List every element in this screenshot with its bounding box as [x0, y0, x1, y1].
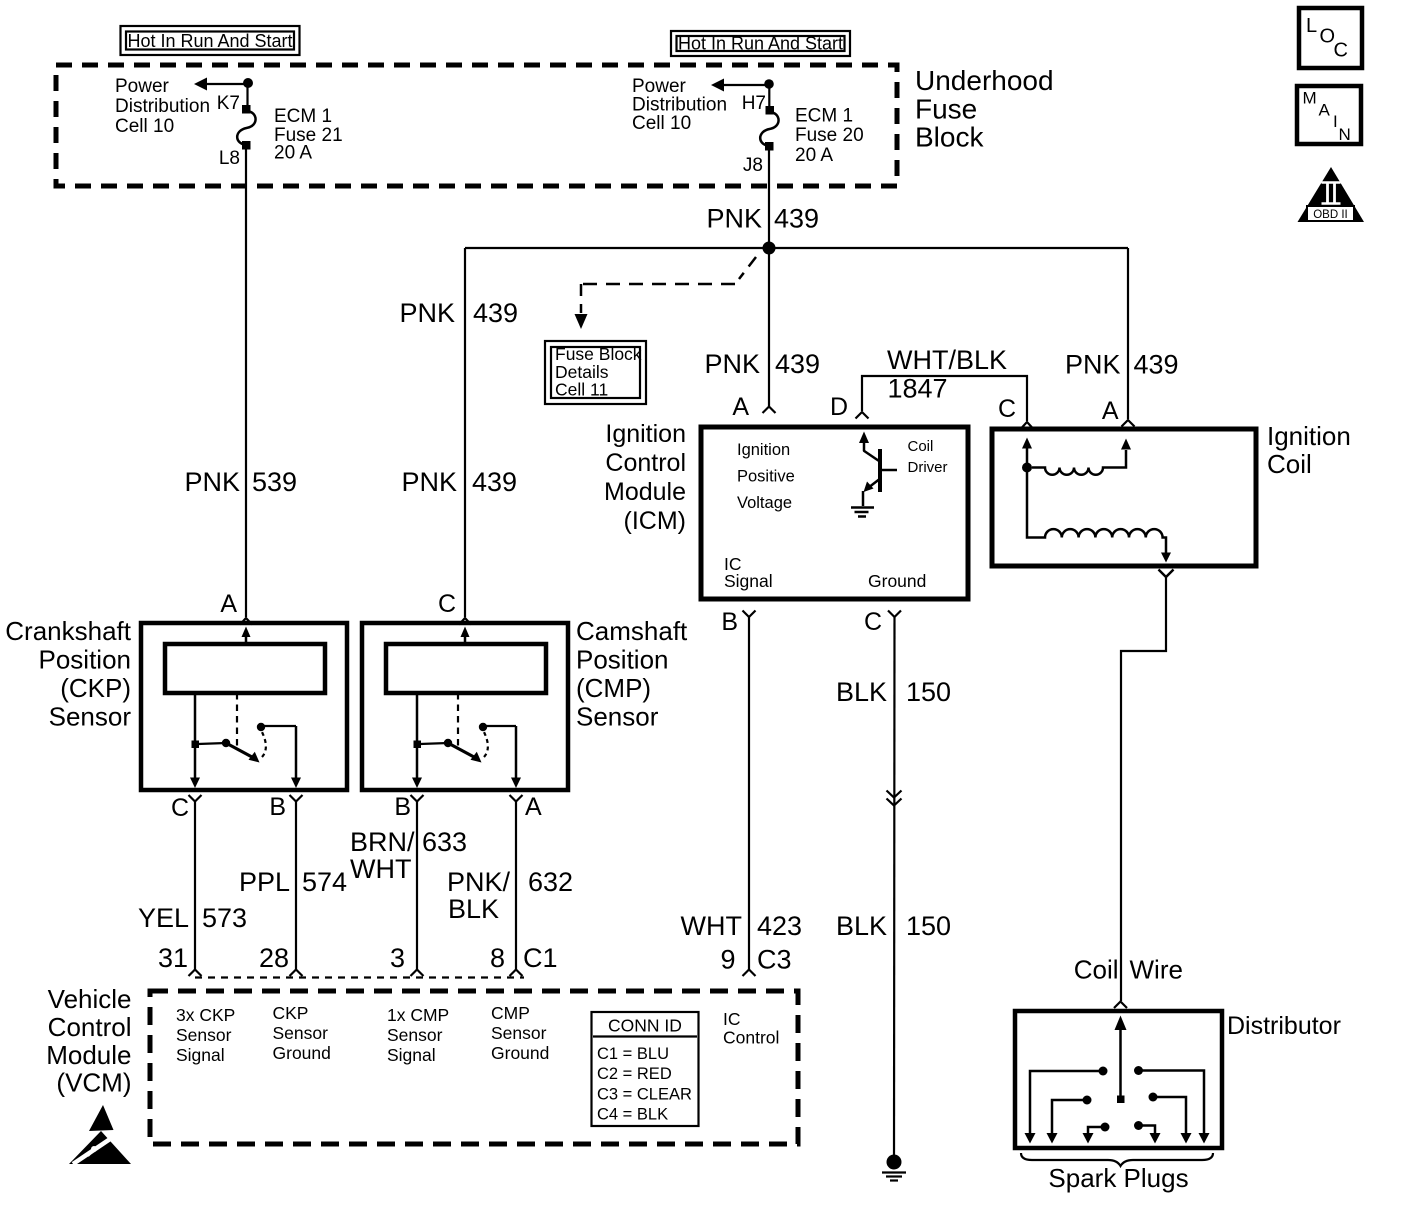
svg-text:Ground: Ground [273, 1043, 331, 1063]
svg-text:B: B [394, 793, 411, 821]
symbol LOC [1299, 8, 1362, 68]
svg-text:Sensor: Sensor [491, 1023, 547, 1043]
CKP sensor box [141, 623, 347, 790]
svg-text:A: A [1102, 397, 1119, 425]
CKP pin A connector [240, 618, 252, 625]
svg-text:31: 31 [158, 943, 188, 973]
wire: WHT/BLK 1847 ICM D to coil C [862, 376, 1027, 421]
svg-text:BLK: BLK [836, 911, 887, 941]
svg-text:Sensor: Sensor [576, 702, 659, 732]
svg-text:BLK: BLK [836, 677, 887, 707]
svg-text:A: A [525, 793, 542, 821]
svg-text:BRN/: BRN/ [350, 827, 415, 857]
svg-text:Vehicle: Vehicle [48, 984, 132, 1014]
label: CMP Sensor Ground [491, 1003, 549, 1063]
wire: PNK 439 from J8 to ICM pin A [768, 146, 770, 406]
CMP internal wire to pin A [511, 726, 521, 788]
CMP pin A connector [510, 795, 523, 802]
svg-text:Coil: Coil [1074, 955, 1119, 985]
svg-text:L8: L8 [219, 148, 240, 169]
wire: PNK/BLK 632 CMP A to VCM 8 [515, 802, 517, 970]
net label: PNK 439 (above CMP) [401, 467, 517, 497]
pin C connector (coil) [1021, 422, 1033, 429]
underhood fuse block dashed boundary [56, 65, 897, 186]
svg-text:Control: Control [605, 449, 686, 477]
net label: BRN/WHT 633 [350, 827, 467, 884]
pin A connector (coil) [1122, 420, 1135, 427]
wire: YEL 573 CKP C to VCM 31 [194, 802, 196, 970]
svg-text:CONN ID: CONN ID [608, 1016, 682, 1036]
svg-text:9: 9 [720, 945, 735, 975]
svg-text:20 A: 20 A [274, 143, 312, 164]
wire: PPL 574 CKP B to VCM 28 [295, 802, 297, 970]
CKP pickup element [165, 644, 325, 693]
junction K7 (left) [243, 78, 253, 88]
svg-text:Sensor: Sensor [387, 1025, 443, 1045]
CMP internal dashed wire [457, 693, 459, 746]
svg-text:439: 439 [775, 349, 820, 379]
svg-text:B: B [721, 608, 738, 636]
net label: WHT/BLK 1847 [887, 345, 1007, 404]
svg-text:(ICM): (ICM) [624, 507, 686, 535]
svg-text:Wire: Wire [1130, 955, 1183, 985]
svg-text:PNK: PNK [1065, 350, 1121, 380]
svg-text:PNK: PNK [184, 467, 240, 497]
svg-text:C: C [171, 794, 189, 822]
ICM U1 box [701, 427, 968, 599]
svg-text:C: C [998, 395, 1016, 423]
label: Crankshaft Position (CKP) Sensor [5, 616, 131, 732]
svg-text:Fuse 20: Fuse 20 [795, 125, 864, 146]
svg-text:Hot In Run And Start: Hot In Run And Start [678, 34, 843, 54]
label box: Hot In Run And Start (left) [121, 26, 300, 55]
ignition coil T1 box [992, 429, 1256, 566]
svg-text:Ignition: Ignition [1267, 421, 1351, 451]
distributor cap terminals [1083, 1066, 1158, 1132]
VCM pin 9 connector [743, 970, 756, 977]
svg-text:PNK: PNK [706, 204, 762, 234]
svg-text:Module: Module [46, 1040, 131, 1070]
label: Power Distribution Cell 10 (right) [632, 76, 727, 134]
CKP pin C connector [189, 795, 202, 802]
CKP internal feed arrow [242, 627, 251, 645]
svg-text:Block: Block [915, 122, 984, 153]
svg-text:573: 573 [202, 903, 247, 933]
wire: PNK 439 bus [465, 247, 1128, 249]
label: Ignition Control Module (ICM) [604, 420, 686, 535]
VCM dashed box [150, 991, 798, 1144]
wire: H7 stub [768, 85, 770, 110]
net label: YEL 573 [138, 903, 247, 933]
distributor input connector [1114, 1002, 1127, 1009]
svg-text:Coil: Coil [908, 438, 934, 455]
label: Ignition Coil [1267, 421, 1351, 479]
secondary winding L2 [1027, 472, 1171, 563]
CMP variable reluctance switch [414, 723, 517, 763]
svg-text:Fuse Block: Fuse Block [555, 344, 642, 364]
svg-text:I: I [1333, 112, 1338, 131]
svg-text:A: A [1319, 100, 1331, 119]
svg-text:IC: IC [723, 1009, 741, 1029]
wire: K7 stub [246, 84, 248, 109]
svg-text:150: 150 [906, 911, 951, 941]
net label: PNK 439 (above ICM) [704, 349, 820, 379]
net label: PNK 439 (upper left) [399, 298, 518, 328]
svg-text:Signal: Signal [176, 1045, 225, 1065]
coil pin C internal arrow [1022, 438, 1032, 467]
svg-text:3x CKP: 3x CKP [176, 1005, 235, 1025]
svg-text:Crankshaft: Crankshaft [5, 616, 131, 646]
svg-text:C: C [864, 608, 882, 636]
connector C1 dashed boundary [195, 976, 524, 978]
value label: ECM 1 Fuse 20 20 A [795, 106, 864, 167]
CKP internal wire to pin B [291, 726, 301, 788]
svg-text:B: B [269, 793, 286, 821]
svg-text:Signal: Signal [724, 571, 773, 591]
spark plug wire 6 [1139, 1071, 1210, 1144]
label: IC Signal [724, 554, 773, 591]
VCM pin 28 connector [290, 970, 303, 977]
CKP internal dashed wire [236, 693, 238, 746]
svg-text:Distributor: Distributor [1227, 1012, 1341, 1040]
svg-text:539: 539 [252, 467, 297, 497]
svg-text:C1: C1 [523, 943, 558, 973]
svg-text:150: 150 [906, 677, 951, 707]
net label: PPL 574 [239, 867, 347, 897]
svg-text:PPL: PPL [239, 867, 290, 897]
svg-text:439: 439 [473, 298, 518, 328]
svg-text:M: M [1303, 88, 1317, 107]
CMP pin B connector [411, 795, 424, 802]
svg-text:Position: Position [576, 645, 669, 675]
spark plug wire 3 [1083, 1127, 1106, 1144]
svg-text:28: 28 [259, 943, 289, 973]
value label: ECM 1 Fuse 21 20 A [274, 106, 343, 164]
CMP pin C connector [459, 618, 471, 625]
pin D connector (ICM) [856, 412, 869, 419]
svg-text:YEL: YEL [138, 903, 189, 933]
svg-text:C2 = RED: C2 = RED [597, 1065, 672, 1083]
svg-text:Driver: Driver [908, 459, 948, 476]
svg-text:1x CMP: 1x CMP [387, 1005, 449, 1025]
svg-text:Fuse: Fuse [915, 93, 977, 124]
svg-text:BLK: BLK [448, 894, 499, 924]
VCM pin 31 connector [189, 970, 202, 977]
label: 3x CKP Sensor Signal [176, 1005, 235, 1065]
net label: PNK 439 (above coil) [1065, 350, 1179, 380]
svg-text:Ground: Ground [491, 1043, 549, 1063]
svg-text:8: 8 [490, 943, 505, 973]
svg-text:ECM 1: ECM 1 [274, 106, 332, 127]
svg-text:Voltage: Voltage [737, 494, 792, 512]
wire: PNK 539 from L8 to CKP [245, 146, 247, 617]
wire: BRN/WHT 633 CMP B to VCM 3 [416, 802, 418, 970]
label: IC Control [723, 1009, 779, 1048]
pin B connector (ICM) [743, 611, 756, 618]
svg-text:Camshaft: Camshaft [576, 616, 688, 646]
svg-text:574: 574 [302, 867, 347, 897]
coil secondary output connector [1159, 570, 1174, 578]
label: Camshaft Position (CMP) Sensor [576, 616, 688, 732]
svg-text:WHT: WHT [681, 911, 742, 941]
svg-text:Power: Power [115, 76, 170, 97]
svg-text:A: A [732, 393, 749, 421]
symbol OBD II triangle [1298, 167, 1365, 222]
svg-text:633: 633 [422, 827, 467, 857]
svg-text:N: N [1339, 125, 1351, 144]
svg-text:Ignition: Ignition [737, 441, 790, 459]
wire: BLK 150 ICM C to ground [893, 617, 896, 1161]
svg-text:C: C [1334, 40, 1348, 62]
svg-text:Sensor: Sensor [176, 1025, 232, 1045]
svg-text:Spark Plugs: Spark Plugs [1048, 1163, 1188, 1193]
fuse ECM1 Fuse 20 20A [760, 106, 778, 151]
inline connector on BLK 150 [887, 791, 902, 806]
net label: WHT 423 [681, 911, 803, 941]
svg-text:PNK: PNK [399, 298, 455, 328]
VCM pin 8 connector [510, 970, 523, 977]
pin C connector (ICM) [888, 611, 901, 618]
svg-text:C3: C3 [757, 945, 792, 975]
label: 1x CMP Sensor Signal [387, 1005, 449, 1065]
svg-text:(CMP): (CMP) [576, 673, 651, 703]
ground G101 [882, 1155, 906, 1181]
svg-text:Positive: Positive [737, 468, 795, 486]
net label: BLK 150 (lower) [836, 911, 951, 941]
VCM pin 3 connector [411, 970, 424, 977]
label: Power Distribution Cell 10 (left) [115, 76, 210, 137]
junction: PNK 439 splice [763, 242, 776, 255]
spark plug wire 2 [1047, 1100, 1088, 1144]
CONN ID table [592, 1012, 699, 1126]
svg-text:423: 423 [757, 911, 802, 941]
CMP pickup element [386, 644, 546, 693]
dashed reference pointer to fuse block details [575, 257, 757, 329]
svg-text:632: 632 [528, 867, 573, 897]
CKP pin B connector [290, 795, 303, 802]
svg-text:WHT/BLK: WHT/BLK [887, 345, 1007, 375]
svg-text:OBD II: OBD II [1313, 209, 1348, 221]
svg-text:L: L [1306, 15, 1317, 37]
ground (inside ICM) [851, 508, 874, 517]
svg-text:H7: H7 [742, 93, 766, 114]
svg-text:1847: 1847 [887, 374, 947, 404]
CKP variable reluctance switch [192, 723, 297, 763]
svg-text:Control: Control [723, 1028, 779, 1048]
svg-text:439: 439 [1134, 350, 1179, 380]
svg-text:PNK/: PNK/ [447, 867, 511, 897]
label box: Fuse Block Details Cell 11 [545, 341, 646, 404]
svg-text:Cell 10: Cell 10 [632, 113, 691, 134]
label: Coil Driver [908, 438, 948, 476]
transistor Q1 coil driver [859, 432, 897, 507]
svg-text:(CKP): (CKP) [60, 673, 131, 703]
pin A connector (ICM) [763, 407, 776, 414]
svg-text:439: 439 [472, 467, 517, 497]
svg-text:Ground: Ground [868, 571, 926, 591]
svg-text:3: 3 [390, 943, 405, 973]
svg-text:C: C [438, 590, 456, 618]
wire: PNK 439 branch to CMP [464, 248, 466, 617]
svg-text:Hot In Run And Start: Hot In Run And Start [127, 31, 292, 51]
ESD sensitivity symbol [69, 1105, 131, 1164]
CMP sensor box [362, 623, 568, 790]
svg-text:(VCM): (VCM) [56, 1068, 131, 1098]
label: Vehicle Control Module (VCM) [46, 984, 131, 1098]
primary winding L1 [1032, 439, 1131, 475]
distributor rotor arrow [1115, 1016, 1127, 1104]
svg-text:PNK: PNK [401, 467, 457, 497]
label: Ignition Positive Voltage [737, 441, 795, 512]
net label: BLK 150 (upper) [836, 677, 951, 707]
svg-text:Ignition: Ignition [605, 420, 686, 448]
svg-text:PNK: PNK [704, 349, 760, 379]
svg-text:Signal: Signal [387, 1045, 436, 1065]
svg-text:439: 439 [774, 204, 819, 234]
svg-text:Control: Control [48, 1012, 132, 1042]
spark plug wire 4 [1139, 1126, 1161, 1144]
wire: power feed arrow (left) [194, 78, 248, 91]
CMP internal wire to pin B [412, 693, 422, 788]
CMP internal feed arrow [461, 627, 470, 645]
svg-text:J8: J8 [743, 155, 763, 176]
svg-text:Sensor: Sensor [49, 702, 132, 732]
svg-text:A: A [220, 590, 237, 618]
svg-text:D: D [830, 393, 848, 421]
svg-text:Sensor: Sensor [273, 1023, 329, 1043]
svg-text:CKP: CKP [273, 1003, 309, 1023]
fuse ECM1 Fuse 21 20A [237, 105, 255, 150]
net label: Coil Wire [1074, 955, 1183, 985]
net label: PNK 539 [184, 467, 297, 497]
spark plug wire 5 [1153, 1097, 1192, 1144]
junction H7 (right) [764, 79, 774, 89]
spark plug wire 1 [1025, 1071, 1104, 1144]
svg-text:Position: Position [39, 645, 132, 675]
svg-text:C4 = BLK: C4 = BLK [597, 1106, 668, 1124]
svg-text:Underhood: Underhood [915, 65, 1054, 96]
svg-text:C1 = BLU: C1 = BLU [597, 1045, 669, 1063]
CKP internal wire to pin C [190, 693, 200, 788]
svg-text:Cell 11: Cell 11 [555, 380, 608, 400]
wire: PNK 439 branch to ignition coil [1127, 248, 1129, 419]
svg-text:ECM 1: ECM 1 [795, 106, 853, 127]
svg-text:C3 = CLEAR: C3 = CLEAR [597, 1086, 692, 1104]
wire: WHT 423 ICM B to VCM 9 [748, 617, 750, 970]
svg-text:Distribution: Distribution [115, 96, 210, 117]
svg-text:WHT: WHT [350, 854, 411, 884]
spark plugs brace [1021, 1153, 1213, 1166]
svg-text:20 A: 20 A [795, 145, 833, 166]
wire: coil secondary to distributor [1121, 577, 1166, 1001]
svg-text:Module: Module [604, 478, 686, 506]
svg-text:K7: K7 [217, 93, 240, 114]
coil internal junction [1022, 463, 1032, 473]
svg-text:Cell 10: Cell 10 [115, 116, 174, 137]
distributor box [1015, 1011, 1222, 1148]
net label: PNK 439 (top) [706, 204, 819, 234]
svg-text:CMP: CMP [491, 1003, 530, 1023]
wire: power feed arrow (right) [711, 79, 769, 92]
label box: Hot In Run And Start (right) [671, 31, 850, 56]
svg-text:Coil: Coil [1267, 449, 1312, 479]
label: Underhood Fuse Block [915, 65, 1054, 153]
label: CKP Sensor Ground [273, 1003, 331, 1063]
net label: PNK/BLK 632 [447, 867, 573, 924]
symbol MAIN [1297, 86, 1361, 144]
